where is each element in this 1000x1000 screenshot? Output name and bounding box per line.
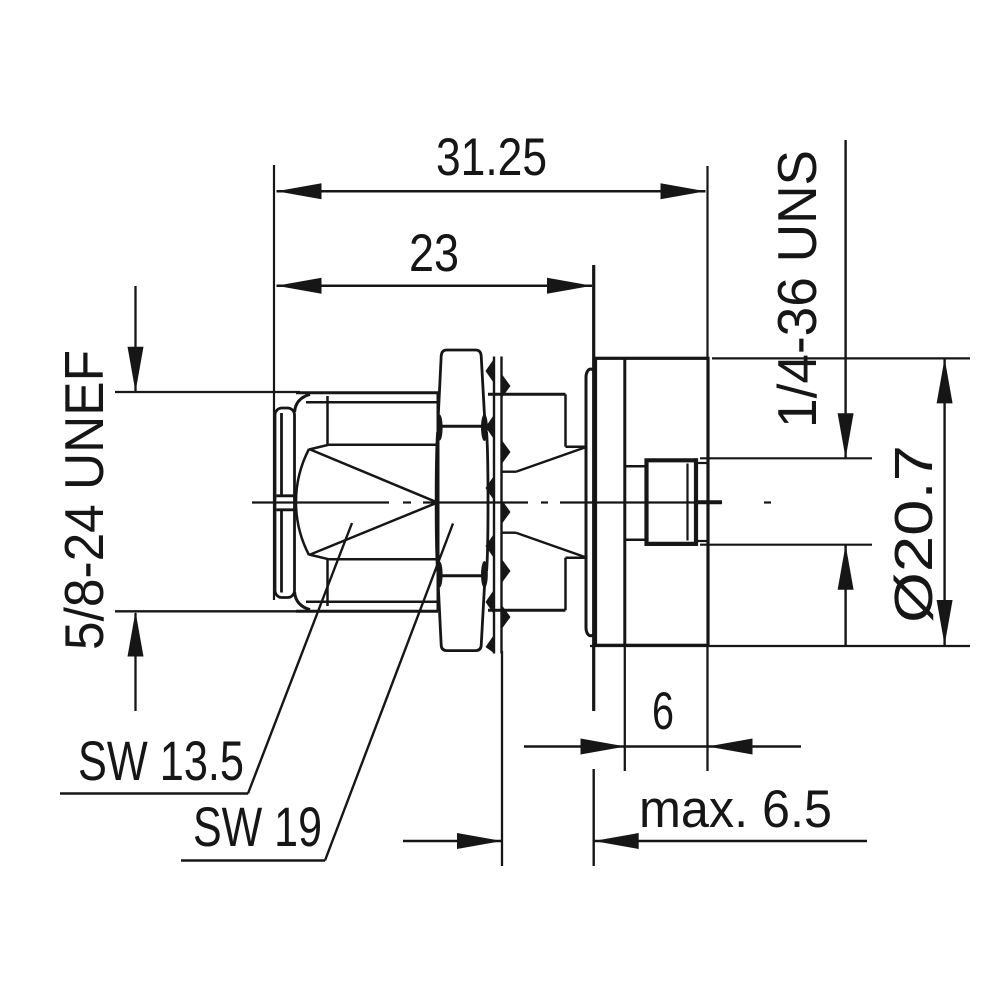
threaded section 5/8-24 outer (295, 393, 438, 611)
center line (252, 501, 771, 503)
svg-text:SW 13.5: SW 13.5 (78, 729, 244, 792)
dimension max. 6.5 (501, 651, 503, 866)
flange disc (586, 369, 596, 636)
cylinder washer to flange (488, 394, 566, 610)
small end cylinder (698, 463, 707, 541)
dimension 1/4-36 UNS (590, 458, 970, 646)
internal bore and cone (296, 396, 438, 606)
thread end line (686, 464, 688, 541)
block division (623, 358, 626, 645)
panel line (592, 265, 595, 711)
washer teeth left (486, 358, 495, 654)
center pin (698, 500, 722, 504)
svg-text:max. 6.5: max. 6.5 (639, 780, 832, 839)
dimension 6 (625, 645, 708, 771)
front sleeve cap (275, 408, 295, 598)
right body block (596, 358, 709, 645)
dimension diameter 20.7 (712, 357, 970, 359)
washer teeth right (501, 373, 511, 630)
hex nut bottom band (438, 581, 485, 651)
hex nut middle band (436, 432, 437, 571)
svg-text:6: 6 (652, 682, 674, 741)
thread minor lines (306, 402, 438, 601)
hex nut division lines (438, 425, 486, 428)
step verticals (566, 394, 588, 610)
svg-text:31.25: 31.25 (436, 128, 547, 187)
lock washer (494, 357, 502, 654)
hex nut chamfer lenses (437, 414, 488, 588)
svg-text:Ø20.7: Ø20.7 (884, 445, 944, 623)
right cone (503, 447, 588, 558)
threaded stub 1/4-36 (645, 458, 698, 546)
svg-text:SW 19: SW 19 (193, 795, 322, 858)
svg-text:1/4-36 UNS: 1/4-36 UNS (766, 150, 828, 428)
dimension 31.25 (274, 165, 708, 600)
dimension 5/8-24 UNEF (115, 286, 300, 711)
dimension 23 (277, 285, 593, 288)
hex nut SW19 top band (438, 350, 485, 421)
svg-text:5/8-24 UNEF: 5/8-24 UNEF (53, 350, 115, 650)
body right face (437, 393, 440, 611)
stub shank (625, 466, 645, 539)
svg-text:23: 23 (409, 224, 459, 283)
